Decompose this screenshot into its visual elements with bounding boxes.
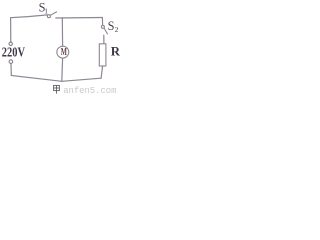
switch S1 pivot: [47, 15, 50, 18]
wire top-right segment: [56, 17, 103, 20]
resistor R body: [99, 44, 106, 66]
wire lower-left vertical + bottom wire: [11, 63, 101, 81]
wire S2 to resistor: [103, 35, 105, 44]
terminal lower (220V): [9, 60, 13, 64]
svg-text:R: R: [111, 45, 121, 59]
terminal upper (220V): [9, 42, 12, 45]
wire motor lower branch: [61, 58, 64, 81]
wire motor upper branch: [61, 18, 63, 47]
switch S2 pivot: [101, 25, 104, 28]
svg-text:S: S: [108, 19, 115, 33]
wire right corner vertical: [101, 18, 103, 26]
svg-text:M: M: [61, 47, 68, 58]
wire top-left segment + left vertical: [11, 15, 48, 42]
wire resistor to bottom: [101, 66, 103, 78]
label jia (figure A) drawn glyph: [54, 85, 60, 93]
svg-text:220V: 220V: [2, 45, 25, 60]
switch S2 blade: [104, 28, 108, 34]
svg-text:1: 1: [44, 6, 48, 15]
motor M circle: [57, 46, 69, 58]
svg-text:2: 2: [115, 25, 119, 34]
svg-text:anfen5.com: anfen5.com: [63, 86, 116, 96]
switch S1 blade: [50, 12, 57, 16]
